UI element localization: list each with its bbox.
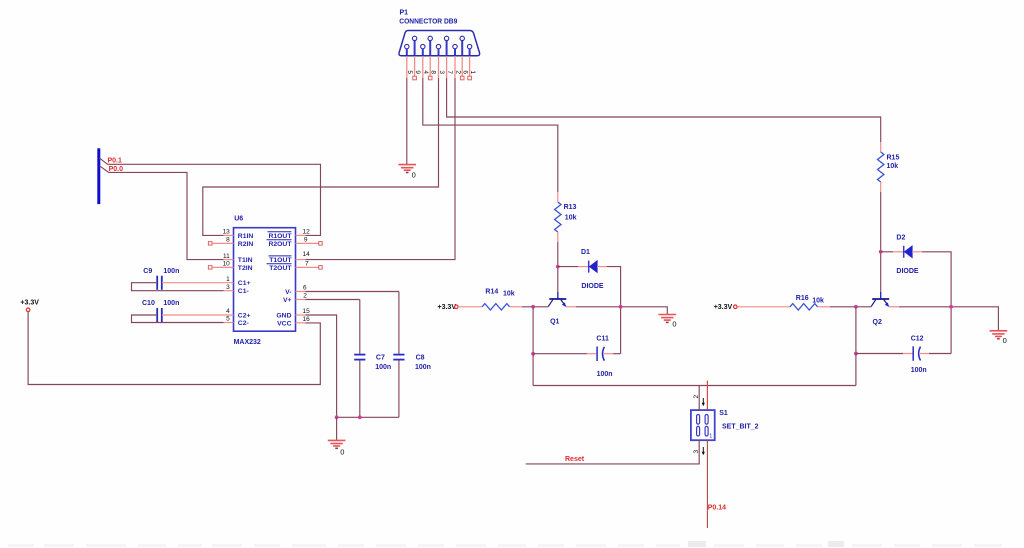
svg-text:5: 5 bbox=[226, 316, 230, 323]
svg-text:100n: 100n bbox=[911, 367, 927, 374]
svg-text:C1+: C1+ bbox=[238, 280, 251, 287]
svg-text:T2OUT: T2OUT bbox=[269, 265, 292, 272]
no-connect square pin 8 bbox=[428, 76, 432, 80]
bus P0 bbox=[97, 148, 100, 204]
label DIODE of D1 bbox=[581, 283, 604, 290]
label C8 100n bbox=[415, 355, 431, 371]
svg-text:CONNECTOR DB9: CONNECTOR DB9 bbox=[399, 19, 457, 26]
svg-text:R15: R15 bbox=[887, 155, 900, 162]
pin stub R2OUT with no-connect bbox=[296, 242, 323, 246]
label 0 at MAX232 ground bbox=[340, 447, 344, 456]
label 0 at DB9 ground bbox=[412, 171, 416, 180]
wire +3.3V to R14 bbox=[458, 306, 482, 308]
wire Q2 node down to rail bbox=[855, 354, 857, 386]
svg-text:R2IN: R2IN bbox=[238, 241, 254, 248]
label 10k of R15 bbox=[887, 163, 899, 170]
wire P0.0 to T1IN bbox=[109, 172, 224, 259]
svg-text:10k: 10k bbox=[565, 214, 577, 221]
svg-text:10k: 10k bbox=[503, 291, 515, 298]
wire bottom rail bbox=[533, 385, 856, 387]
svg-text:0: 0 bbox=[1003, 336, 1007, 345]
junction R13 D1 bbox=[556, 265, 560, 269]
U6 right pin names bbox=[268, 233, 292, 327]
U6 active-low overlines bbox=[267, 232, 292, 264]
svg-text:C8: C8 bbox=[416, 355, 425, 362]
label U6 bbox=[234, 215, 243, 222]
ground symbol right of Q2 bbox=[990, 331, 1008, 339]
wire R14 to Q1 emitter bbox=[510, 306, 549, 308]
ground symbol under DB9 bbox=[398, 165, 416, 173]
wire C11 left branch bbox=[532, 307, 534, 354]
DB9 pin 6 stub bbox=[461, 56, 463, 76]
truncated text row at sheet bottom bbox=[8, 541, 1002, 547]
power port +3.3V left bbox=[20, 300, 39, 312]
wire D2 anode branch bbox=[881, 251, 903, 253]
resistor R16 bbox=[790, 304, 818, 310]
ground symbol right of Q1 bbox=[659, 315, 677, 323]
capacitor C7 bbox=[354, 355, 365, 360]
svg-text:100n: 100n bbox=[375, 364, 391, 371]
svg-text:DIODE: DIODE bbox=[581, 283, 604, 290]
svg-text:R1OUT: R1OUT bbox=[268, 233, 292, 240]
pin stub V- bbox=[296, 291, 306, 293]
label 100n of C11 bbox=[597, 371, 613, 378]
no-connect square pin 9 bbox=[413, 76, 417, 80]
svg-text:DIODE: DIODE bbox=[896, 268, 919, 275]
label R13 bbox=[564, 204, 577, 211]
DB9 pin 1 stub bbox=[469, 56, 471, 76]
svg-text:1: 1 bbox=[226, 276, 230, 283]
capacitor C8 bbox=[393, 355, 404, 360]
svg-text:2: 2 bbox=[303, 293, 307, 300]
svg-text:14: 14 bbox=[303, 251, 311, 258]
label 100n of C12 bbox=[911, 367, 927, 374]
wire Q1 collector to ground bbox=[566, 307, 668, 314]
label SET_BIT_2 bbox=[722, 424, 759, 431]
DB9 pin 2 stub bbox=[454, 56, 456, 78]
wire GND pin to ground rail bbox=[306, 315, 399, 417]
ground symbol under MAX232 bbox=[328, 417, 346, 448]
net label P0.0 bbox=[109, 166, 124, 173]
label R16 bbox=[796, 295, 809, 302]
svg-text:3: 3 bbox=[226, 284, 230, 291]
svg-text:Q2: Q2 bbox=[873, 319, 882, 326]
svg-text:R2OUT: R2OUT bbox=[268, 241, 292, 248]
no-connect square pin 6 bbox=[460, 76, 464, 80]
svg-text:MAX232: MAX232 bbox=[234, 339, 261, 346]
junction R15 D2 bbox=[879, 250, 883, 254]
DB9 pin 3 stub bbox=[438, 56, 440, 78]
capacitor C9 bbox=[157, 276, 162, 290]
resistor R14 bbox=[482, 304, 510, 310]
svg-text:16: 16 bbox=[303, 316, 311, 323]
DB9 pin 7 stub bbox=[446, 56, 448, 78]
svg-text:Q1: Q1 bbox=[550, 319, 559, 326]
bus entry P0.1 bbox=[100, 158, 108, 164]
wire C7 vertical bbox=[359, 300, 361, 418]
svg-text:Reset: Reset bbox=[565, 456, 585, 463]
net label P0.14 bbox=[708, 504, 726, 511]
wire R13 to Q1 base bbox=[557, 242, 559, 292]
wire S1 pin3 to Reset bbox=[526, 440, 700, 464]
wire S1 pin2 from rail bbox=[698, 386, 700, 411]
diode D1 bbox=[589, 261, 597, 273]
svg-text:8: 8 bbox=[226, 237, 230, 244]
wire DB9 pin4 to R13 bbox=[423, 78, 558, 192]
junction Q2 left node bbox=[854, 305, 858, 309]
S1 actuator arrow bottom bbox=[702, 447, 705, 455]
svg-text:0: 0 bbox=[340, 447, 344, 456]
label C10 100n bbox=[142, 300, 179, 307]
svg-text:7: 7 bbox=[305, 261, 309, 268]
junction D2 vertical on emitter wire bbox=[949, 305, 953, 309]
svg-text:C10: C10 bbox=[142, 300, 155, 307]
DB9 pin 9 stub bbox=[414, 56, 416, 76]
svg-text:10k: 10k bbox=[887, 163, 899, 170]
U6 right pin numbers bbox=[303, 229, 311, 324]
pin stub R1IN bbox=[224, 234, 234, 236]
label 10k of R16 bbox=[812, 297, 824, 304]
power port +3.3V at R16 bbox=[714, 304, 737, 311]
DB9 pin 8 stub bbox=[429, 56, 431, 76]
wire C10 loop bbox=[132, 315, 234, 323]
junction C7 on rail bbox=[358, 415, 362, 419]
DB9 pin circles bbox=[405, 36, 472, 49]
wire VCC to +3.3V bbox=[28, 312, 320, 385]
svg-text:13: 13 bbox=[223, 229, 231, 236]
pin stub V+ bbox=[296, 299, 306, 301]
svg-text:2: 2 bbox=[693, 395, 700, 399]
svg-text:C1-: C1- bbox=[238, 288, 249, 295]
U6 left pin names bbox=[238, 233, 254, 327]
pin stub T1IN bbox=[224, 259, 234, 261]
svg-text:100n: 100n bbox=[163, 300, 179, 307]
capacitor C10 bbox=[157, 308, 162, 322]
wire V- to C8 bbox=[306, 291, 399, 293]
svg-text:R16: R16 bbox=[796, 295, 809, 302]
label MAX232 bbox=[234, 339, 261, 346]
op-amp U6 body MAX232 bbox=[234, 228, 296, 332]
svg-text:R14: R14 bbox=[485, 289, 498, 296]
resistor R15 bbox=[878, 142, 884, 192]
push button S1 bbox=[691, 410, 715, 440]
wire DB9 pin2 to T1OUT bbox=[306, 78, 456, 260]
svg-text:9: 9 bbox=[304, 237, 308, 244]
svg-text:C9: C9 bbox=[143, 268, 152, 275]
wire D1 anode branch bbox=[558, 266, 588, 268]
svg-text:10: 10 bbox=[223, 261, 231, 268]
wire DB9 pin5 to ground bbox=[406, 78, 408, 164]
svg-text:T1IN: T1IN bbox=[238, 257, 253, 264]
svg-text:T1OUT: T1OUT bbox=[269, 257, 292, 264]
svg-text:P1: P1 bbox=[400, 9, 409, 16]
wire C9 loop bbox=[132, 283, 234, 291]
label P1 bbox=[400, 9, 409, 16]
capacitor C12 bbox=[913, 346, 920, 361]
wire C12 loop bottom bbox=[856, 353, 951, 355]
svg-text:100n: 100n bbox=[163, 268, 179, 275]
pin stub T2OUT with no-connect bbox=[296, 266, 323, 270]
wire Q2 collector to ground bbox=[889, 307, 999, 331]
wire S1 pin1 from rail bbox=[706, 381, 708, 411]
wire Q1 node down to rail bbox=[532, 354, 534, 386]
DB9 pin 4 stub bbox=[422, 56, 424, 78]
wire C11 loop bottom bbox=[533, 353, 621, 355]
no-connect square pin 1 bbox=[468, 76, 472, 80]
svg-text:0: 0 bbox=[412, 171, 416, 180]
label 10k of R14 bbox=[503, 291, 515, 298]
wire D2 cathode to emitter node bbox=[912, 252, 951, 354]
wire DB9 pin3 to R1IN bbox=[203, 78, 439, 235]
svg-text:11: 11 bbox=[223, 253, 230, 260]
net label Reset bbox=[565, 456, 585, 463]
svg-text:P0.0: P0.0 bbox=[109, 166, 124, 173]
svg-text:VCC: VCC bbox=[277, 320, 291, 327]
svg-text:+3.3V: +3.3V bbox=[438, 304, 457, 311]
svg-text:V+: V+ bbox=[283, 297, 292, 304]
svg-text:D1: D1 bbox=[581, 249, 590, 256]
label DIODE of D2 bbox=[896, 268, 919, 275]
svg-text:P0.14: P0.14 bbox=[708, 504, 726, 511]
wire V+ to C7 bbox=[306, 299, 360, 301]
net label P0.1 bbox=[108, 158, 123, 165]
svg-text:100n: 100n bbox=[415, 364, 431, 371]
svg-text:+3.3V: +3.3V bbox=[20, 300, 39, 307]
pin stub R2IN with no-connect bbox=[208, 242, 233, 246]
svg-text:C11: C11 bbox=[596, 335, 609, 342]
junction C12 branch bbox=[854, 352, 858, 356]
label D2 bbox=[896, 235, 905, 242]
DB9 pin 5 stub bbox=[406, 56, 408, 78]
svg-text:SET_BIT_2: SET_BIT_2 bbox=[722, 424, 759, 431]
svg-text:GND: GND bbox=[276, 313, 291, 320]
wire P0.1 to R1OUT bbox=[108, 164, 321, 235]
label CONNECTOR DB9 bbox=[399, 19, 457, 26]
svg-text:15: 15 bbox=[303, 308, 311, 315]
svg-text:C7: C7 bbox=[376, 355, 385, 362]
DB9 pin number labels bbox=[406, 70, 476, 74]
junction Q1 left node bbox=[531, 305, 535, 309]
svg-text:P0.1: P0.1 bbox=[108, 158, 123, 165]
svg-text:D2: D2 bbox=[896, 235, 905, 242]
transistor Q2 bbox=[871, 292, 889, 307]
svg-text:S1: S1 bbox=[719, 410, 728, 417]
svg-text:T2IN: T2IN bbox=[238, 265, 253, 272]
svg-text:C2+: C2+ bbox=[238, 313, 251, 320]
label C9 100n bbox=[143, 268, 179, 275]
U6 left pin numbers bbox=[223, 229, 231, 323]
label R14 bbox=[485, 289, 498, 296]
label R15 bbox=[887, 155, 900, 162]
label 0 at Q2 ground bbox=[1003, 336, 1007, 345]
junction GND rail left bbox=[335, 415, 339, 419]
S1 pin numbers bbox=[693, 395, 700, 454]
label 0 at Q1 ground bbox=[672, 320, 676, 329]
svg-text:0: 0 bbox=[672, 320, 676, 329]
svg-text:1: 1 bbox=[709, 434, 712, 440]
svg-text:R1IN: R1IN bbox=[238, 233, 254, 240]
pin stub VCC bbox=[296, 322, 306, 324]
resistor R13 bbox=[555, 192, 561, 242]
bus entry P0.0 bbox=[100, 166, 109, 173]
pin stub GND bbox=[296, 314, 306, 316]
wire R16 to Q2 emitter bbox=[818, 306, 872, 308]
svg-text:100n: 100n bbox=[597, 371, 613, 378]
pin stub R1OUT bbox=[296, 234, 306, 236]
svg-text:V-: V- bbox=[285, 289, 291, 296]
wire S1 pin4 to P0.14 bbox=[706, 440, 708, 528]
svg-text:10k: 10k bbox=[812, 297, 824, 304]
svg-text:U6: U6 bbox=[234, 215, 243, 222]
diode D2 bbox=[904, 246, 912, 258]
svg-text:C12: C12 bbox=[911, 336, 924, 343]
svg-text:R13: R13 bbox=[564, 204, 577, 211]
DB9 pin stubs inside connector bbox=[407, 41, 470, 55]
wire R15 to Q2 base bbox=[880, 192, 882, 292]
junction D1 vertical on emitter wire bbox=[619, 305, 623, 309]
svg-text:12: 12 bbox=[303, 229, 311, 236]
transistor Q1 bbox=[548, 292, 566, 307]
label C11 bbox=[596, 335, 609, 342]
wire C12 left branch bbox=[855, 307, 857, 354]
label Q2 bbox=[873, 319, 882, 326]
connector P1 DB9 body bbox=[399, 31, 480, 56]
svg-text:+3.3V: +3.3V bbox=[714, 304, 733, 311]
wire C8 vertical bbox=[398, 292, 400, 418]
svg-text:C2-: C2- bbox=[238, 320, 249, 327]
label 10k of R13 bbox=[565, 214, 577, 221]
svg-text:4: 4 bbox=[226, 308, 230, 315]
wire +3.3V to R16 bbox=[737, 306, 790, 308]
svg-text:6: 6 bbox=[303, 285, 307, 292]
pin stub T1OUT bbox=[296, 259, 306, 261]
pin stub T2IN with no-connect bbox=[208, 266, 233, 270]
label S1 bbox=[719, 410, 728, 417]
wire D1 cathode to emitter node bbox=[597, 267, 621, 354]
capacitor C11 bbox=[597, 347, 604, 362]
label C7 100n bbox=[375, 355, 391, 371]
wire DB9 pin7 to R15 bbox=[447, 78, 881, 142]
label C12 bbox=[911, 336, 924, 343]
label D1 bbox=[581, 249, 590, 256]
label Q1 bbox=[550, 319, 559, 326]
power port +3.3V at R14 bbox=[438, 304, 459, 311]
junction C11 branch bbox=[531, 352, 535, 356]
S1 actuator arrow top bbox=[702, 398, 705, 406]
